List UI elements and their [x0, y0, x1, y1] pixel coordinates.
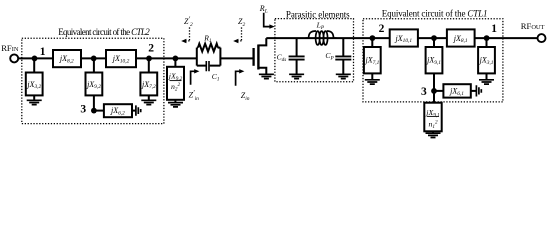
- ground (under Cds): [289, 74, 304, 78]
- wire: node 1 stem: [33, 58, 35, 72]
- parasitic elements outline: [275, 19, 354, 82]
- impedance arrow Z2: [233, 27, 241, 43]
- node 3 (CTL2): [91, 108, 97, 114]
- reactance jX6,1: [443, 84, 470, 97]
- resistor R1: [198, 44, 218, 52]
- ground (transistor source): [259, 74, 274, 78]
- capacitor Cds: [289, 56, 305, 59]
- load arrow RL: [264, 13, 275, 29]
- node 1 (CTL1): [484, 35, 490, 41]
- svg-text:3: 3: [80, 103, 86, 115]
- svg-text:1: 1: [491, 23, 497, 35]
- svg-text:CP: CP: [325, 51, 334, 62]
- wire: transformed box to ground: [174, 100, 176, 103]
- junction node (CTL2 mid): [91, 56, 97, 62]
- input impedance arrow Zin: [236, 69, 245, 86]
- RFout terminal: [538, 34, 546, 42]
- wire: node 3 to jX6,1: [434, 90, 443, 92]
- inductor box jX10,1: [390, 29, 418, 46]
- svg-text:Z′in: Z′in: [189, 89, 200, 102]
- reactance jX7,1: [364, 47, 381, 73]
- junction node (CTL1 mid): [431, 35, 437, 41]
- wire: drain to node 2: [266, 37, 389, 39]
- ground (under Cp): [336, 74, 351, 78]
- CTL2 block outline: [22, 38, 164, 123]
- svg-text:Cds: Cds: [277, 53, 287, 64]
- svg-text:R1: R1: [203, 33, 212, 44]
- wire: transformed box to ground (CTL1): [432, 131, 434, 133]
- svg-text:2: 2: [379, 23, 385, 35]
- svg-text:3: 3: [421, 86, 427, 98]
- wire: CTL1 mid stem: [433, 38, 435, 47]
- wire: RFin to jX8,2: [18, 57, 53, 59]
- svg-text:2: 2: [148, 43, 154, 55]
- transistor Q1 gate bar: [252, 48, 254, 66]
- inductor box jX10,2: [106, 50, 136, 67]
- svg-text:Equivalent circuit of the CTL2: Equivalent circuit of the CTL2: [58, 27, 150, 37]
- wire: jX3,1 to ground: [486, 73, 488, 79]
- node 1 (CTL2): [32, 56, 38, 62]
- wire: drain lead: [258, 38, 266, 45]
- transformed reactance jX9,2/n2^2: [167, 67, 184, 100]
- svg-text:Parasitic elements: Parasitic elements: [286, 10, 350, 20]
- wire: jX6,1 to side ground: [471, 90, 476, 92]
- ground (under jX9,2/n2^2): [168, 103, 183, 107]
- wire: Cds to ground: [296, 60, 298, 75]
- ground (under jX7,1): [365, 80, 380, 84]
- svg-text:Zin: Zin: [241, 91, 250, 102]
- wire: Cp to ground: [342, 60, 344, 75]
- svg-text:RFOUT: RFOUT: [521, 21, 545, 31]
- jX9,1/n1^2 value label: [425, 108, 440, 130]
- node 2 (CTL2): [146, 56, 152, 62]
- wire: jX9,1 to node 3: [433, 73, 435, 102]
- ground (sideways, CTL1): [476, 85, 481, 96]
- reactance jX3,1: [478, 47, 495, 73]
- parallel RC network frame: [197, 48, 221, 66]
- wire: jX7,1 to ground: [371, 73, 373, 79]
- wire: node 2 stem: [371, 38, 373, 47]
- svg-text:C1: C1: [212, 72, 220, 83]
- capacitor Cp: [335, 56, 351, 59]
- ground (sideways, CTL2): [136, 105, 141, 115]
- svg-text:Z′2: Z′2: [184, 15, 193, 28]
- wire: source lead: [258, 68, 266, 75]
- impedance arrow Z'2: [181, 27, 189, 43]
- capacitor C1: [206, 61, 209, 71]
- ground (under jX9,1/n1^2): [426, 133, 441, 137]
- wire: jX8,2 to jX10,2: [81, 57, 106, 59]
- CTL1 block outline: [363, 19, 503, 102]
- wire: mid stem: [93, 58, 95, 72]
- jX9,2/n2^2 value label: [168, 71, 183, 92]
- reactance jX3,2: [26, 73, 43, 96]
- svg-text:RL: RL: [259, 4, 268, 15]
- resistor box jX8,2: [53, 50, 81, 67]
- wire: jX6,2 to side ground: [132, 110, 136, 112]
- svg-text:Z2: Z2: [238, 17, 245, 28]
- wire: jX10,1 to jX8,1: [418, 37, 447, 39]
- wire: jX10,2 to RC network: [136, 57, 197, 59]
- transformed reactance jX9,1/n1^2: [424, 103, 441, 132]
- wire: Cds stem: [296, 38, 298, 56]
- wire: jX7,2 to ground: [148, 95, 150, 100]
- svg-text:Equivalent circuit of the CTL1: Equivalent circuit of the CTL1: [382, 8, 488, 18]
- svg-text:RFIN: RFIN: [1, 43, 19, 53]
- wire: jX3,2 to ground: [33, 95, 35, 100]
- wire: node 1 stem (CTL1): [486, 38, 488, 47]
- wire: RC network to gate: [220, 57, 252, 59]
- junction node (input tap): [173, 56, 179, 62]
- ground (under jX3,1): [479, 80, 494, 84]
- wire: jX8,1 to RFout: [475, 37, 538, 39]
- wire: tap stem: [174, 58, 176, 66]
- resistor box jX8,1: [447, 29, 475, 46]
- reactance jX9,1: [426, 47, 443, 73]
- node 2 (CTL1): [370, 35, 376, 41]
- wire: jX9,2 to node 3: [93, 95, 95, 110]
- ground (under jX3,2): [27, 100, 42, 104]
- inductor Lp: [306, 31, 337, 45]
- reactance jX7,2: [140, 73, 157, 96]
- wire: Cp stem: [342, 38, 344, 56]
- svg-text:LP: LP: [316, 21, 325, 32]
- node 3 (CTL1): [431, 88, 437, 94]
- input impedance arrow Z'in: [191, 69, 200, 85]
- ground (under jX7,2): [141, 100, 156, 104]
- reactance jX9,2: [86, 73, 103, 96]
- wire: node 2 stem: [148, 58, 150, 72]
- RFin terminal: [10, 54, 18, 62]
- transistor Q1 channel bar: [257, 45, 259, 70]
- reactance jX6,2: [104, 104, 132, 117]
- wire: node 3 to jX6,2: [94, 110, 104, 112]
- svg-text:1: 1: [40, 46, 46, 58]
